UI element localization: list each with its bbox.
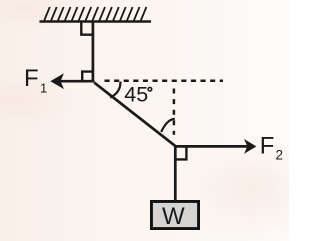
dotted horizontal reference line <box>105 80 224 83</box>
wire F1 (horizontal line left) <box>59 80 95 83</box>
wire to weight <box>174 146 177 201</box>
ceiling line <box>40 20 152 23</box>
rod (vertical bar from ceiling) <box>92 21 95 82</box>
svg-text:F: F <box>260 133 275 160</box>
svg-text:F: F <box>24 65 39 92</box>
right-angle marker at ceiling <box>81 22 93 35</box>
right-angle marker at node B <box>175 148 186 160</box>
arc at lower vertex <box>161 119 175 132</box>
weight box W <box>151 201 198 228</box>
ceiling hatching <box>44 7 146 21</box>
dashed vertical reference line <box>173 89 176 135</box>
svg-text:W: W <box>162 203 185 230</box>
arrowhead F2 <box>245 141 255 153</box>
svg-text:2: 2 <box>276 147 284 162</box>
45 degree arc <box>110 82 120 98</box>
svg-text:1: 1 <box>40 80 47 95</box>
arrowhead F1 <box>52 75 63 88</box>
svg-text:45: 45 <box>124 83 148 107</box>
degree symbol <box>148 87 152 91</box>
right-angle marker at node A <box>82 72 93 82</box>
diagonal wire <box>94 83 176 147</box>
wire F2 (horizontal line right) <box>176 145 249 148</box>
